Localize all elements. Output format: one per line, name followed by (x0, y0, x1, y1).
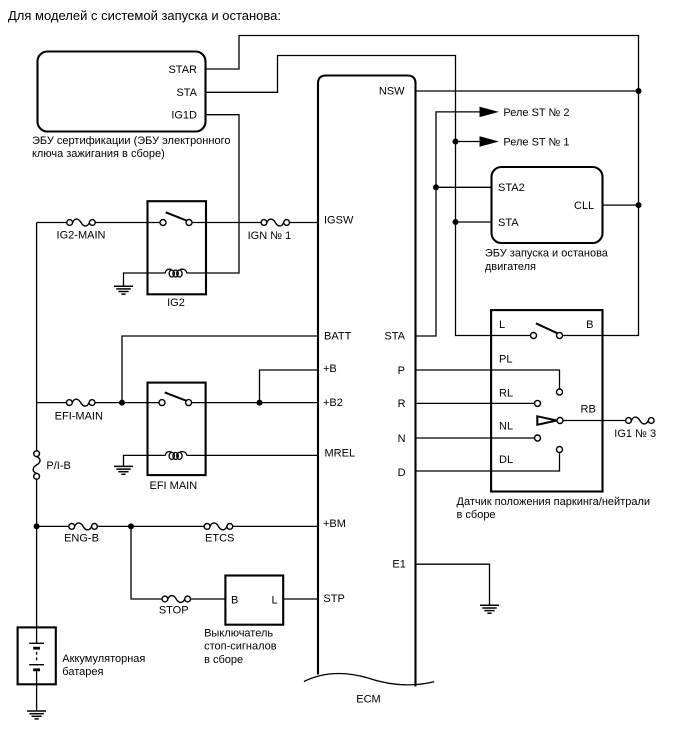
junction STA of U3 (453, 219, 459, 225)
svg-text:ECM: ECM (356, 694, 380, 706)
wire CLL to right bus (603, 204, 639, 206)
park neutral position switch S2 box (491, 310, 602, 491)
svg-text:STA2: STA2 (498, 182, 525, 194)
svg-text:R: R (398, 398, 406, 410)
relay EFI MAIN (148, 383, 206, 476)
svg-text:+B2: +B2 (323, 397, 343, 409)
junction ST No 1 (453, 139, 459, 145)
wire fuse to ECM IGSW (290, 222, 319, 224)
switch contact L-B of S2 (531, 323, 563, 338)
contact PL of S2 (557, 389, 563, 395)
caption of BT1 (62, 653, 145, 678)
wire STA net from U1 to L terminal (206, 56, 531, 336)
svg-text:STA: STA (384, 330, 405, 342)
wire EFI coil to ECM MREL (187, 454, 319, 456)
ground for battery (27, 711, 46, 719)
svg-text:RL: RL (499, 388, 513, 400)
caption of S1 (204, 627, 277, 666)
wire RB to fuse IG1 No 3 (563, 420, 626, 422)
stop light switch S1 (225, 576, 283, 625)
ECU U1 certification ECU box (38, 52, 206, 132)
contact NL of S2 (535, 435, 541, 441)
wire N to NL contact (416, 437, 535, 439)
fuse P/I-B (33, 451, 40, 480)
svg-text:Реле ST № 2: Реле ST № 2 (503, 107, 569, 119)
battery BT1 (18, 627, 56, 684)
svg-text:батарея: батарея (62, 666, 103, 678)
svg-text:ключа зажигания в сборе): ключа зажигания в сборе) (32, 148, 165, 160)
wire EFI relay contact to ECM +B2 (192, 402, 318, 404)
svg-text:P/I-B: P/I-B (46, 460, 70, 472)
caption of U1 (32, 135, 230, 160)
wire BATT net (122, 336, 318, 403)
svg-text:STA: STA (498, 217, 519, 229)
fuse IGN No 1 (261, 219, 290, 226)
svg-text:CLL: CLL (574, 200, 594, 212)
fuse EFI-MAIN (66, 399, 95, 406)
wire IG1D net to IG2 relay coil (187, 115, 240, 273)
svg-text:L: L (272, 595, 278, 607)
wire +BM line segment 3 (233, 525, 318, 527)
fuse IG1 No 3 (626, 417, 655, 424)
svg-text:E1: E1 (392, 558, 405, 570)
svg-text:IG2-MAIN: IG2-MAIN (57, 229, 106, 241)
svg-text:PL: PL (499, 354, 512, 366)
svg-text:IGN № 1: IGN № 1 (248, 230, 292, 242)
wire +BM line segment 2 (97, 525, 204, 527)
junction NSW right bus (636, 88, 642, 94)
contact DL of S2 (557, 447, 563, 453)
arrow to relay ST No 1 (480, 137, 497, 146)
svg-text:Реле ST № 1: Реле ST № 1 (503, 136, 569, 148)
wiper contact RB of S2 (537, 416, 563, 424)
svg-text:Датчик положения паркинга/нейт: Датчик положения паркинга/нейтрали (457, 496, 651, 508)
svg-text:ЭБУ сертификации (ЭБУ электрон: ЭБУ сертификации (ЭБУ электронного (32, 135, 230, 147)
svg-text:Для моделей с системой запуска: Для моделей с системой запуска и останов… (8, 8, 281, 23)
fuse STOP (162, 596, 191, 603)
ground for EFI coil (114, 466, 133, 474)
wire S1 to ECM STP (283, 598, 318, 600)
wire IG2 contact to IGN fuse (192, 222, 261, 224)
svg-text:Выключатель: Выключатель (204, 627, 273, 639)
svg-text:STA: STA (176, 87, 197, 99)
svg-text:STOP: STOP (159, 604, 189, 616)
arrow to relay ST No 2 (480, 107, 497, 116)
svg-text:RB: RB (581, 404, 596, 416)
svg-text:ЭБУ запуска и останова: ЭБУ запуска и останова (485, 248, 609, 260)
svg-text:стоп-сигналов: стоп-сигналов (204, 641, 277, 653)
wire NSW to right bus (416, 90, 639, 92)
wire STA of U3 (456, 221, 492, 223)
svg-text:STAR: STAR (168, 64, 197, 76)
wire STAR net to right bus and B terminal (206, 36, 639, 336)
junction STOP branch (128, 523, 134, 529)
svg-text:N: N (398, 433, 406, 445)
svg-text:MREL: MREL (325, 448, 356, 460)
wire R to RL contact (416, 402, 535, 404)
svg-text:двигателя: двигателя (485, 261, 536, 273)
fuse ETCS (204, 523, 233, 530)
caption of S2 (457, 496, 651, 521)
left bus vertical upper (36, 223, 38, 451)
relay IG2 (148, 201, 207, 294)
svg-text:+B: +B (323, 363, 337, 375)
ground for IG2 coil (114, 286, 133, 294)
ECM U2 box (304, 76, 434, 687)
junction CLL right bus (636, 202, 642, 208)
wire P to PL contact (416, 370, 560, 389)
svg-text:P: P (398, 365, 405, 377)
wire STOP branch (131, 526, 162, 599)
svg-text:B: B (231, 595, 238, 607)
svg-text:BATT: BATT (324, 330, 352, 342)
ECU U3 start and stop ECU box (492, 167, 603, 243)
wire ECM STA up to ST relay No 2 arrow (416, 112, 481, 336)
svg-text:L: L (499, 319, 505, 331)
svg-text:B: B (586, 319, 593, 331)
svg-text:в сборе: в сборе (204, 654, 243, 666)
svg-text:EFI MAIN: EFI MAIN (150, 480, 198, 492)
caption of U3 (485, 248, 609, 273)
svg-text:D: D (398, 467, 406, 479)
svg-text:Аккумуляторная: Аккумуляторная (62, 653, 145, 665)
svg-text:DL: DL (499, 454, 513, 466)
wire +B branch (260, 370, 319, 403)
wire IGSW line left segment (37, 222, 67, 224)
junction BATT and EFI line (119, 400, 125, 406)
svg-text:IGSW: IGSW (324, 214, 354, 226)
wire EFI coil to ground (124, 455, 166, 466)
left bus vertical lower (36, 480, 38, 628)
wire EFI main line left (37, 402, 67, 404)
svg-text:+BM: +BM (323, 518, 346, 530)
junction +B branch (257, 400, 263, 406)
svg-text:ETCS: ETCS (205, 533, 234, 545)
svg-text:в сборе: в сборе (457, 509, 496, 521)
wire STA2 of U3 (436, 186, 492, 188)
ground for E1 (480, 605, 499, 613)
junction left bus +BM (34, 523, 40, 529)
svg-text:IG1 № 3: IG1 № 3 (614, 428, 656, 440)
contact RL of S2 (535, 400, 541, 406)
svg-text:IG1D: IG1D (171, 110, 197, 122)
svg-text:STP: STP (323, 593, 344, 605)
wire fuse to IG2 relay contact (95, 222, 160, 224)
wire battery to ground (36, 684, 38, 711)
svg-text:NL: NL (499, 421, 513, 433)
svg-text:EFI-MAIN: EFI-MAIN (55, 410, 103, 422)
wire E1 to ground (416, 564, 490, 605)
svg-text:ENG-B: ENG-B (64, 533, 99, 545)
svg-text:NSW: NSW (379, 86, 405, 98)
wire IG2 coil to ground (124, 273, 166, 286)
svg-text:IG2: IG2 (167, 297, 185, 309)
wire to ST relay No 1 arrow (456, 141, 481, 143)
wire STOP fuse to stop light switch (190, 598, 225, 600)
junction STA2 of U3 (433, 184, 439, 190)
wire +BM line segment 1 (37, 525, 69, 527)
fuse ENG-B (69, 523, 98, 530)
fuse IG2-MAIN (67, 219, 96, 226)
wire fuse to EFI relay contact (95, 402, 159, 404)
wire D to DL contact (416, 453, 560, 472)
